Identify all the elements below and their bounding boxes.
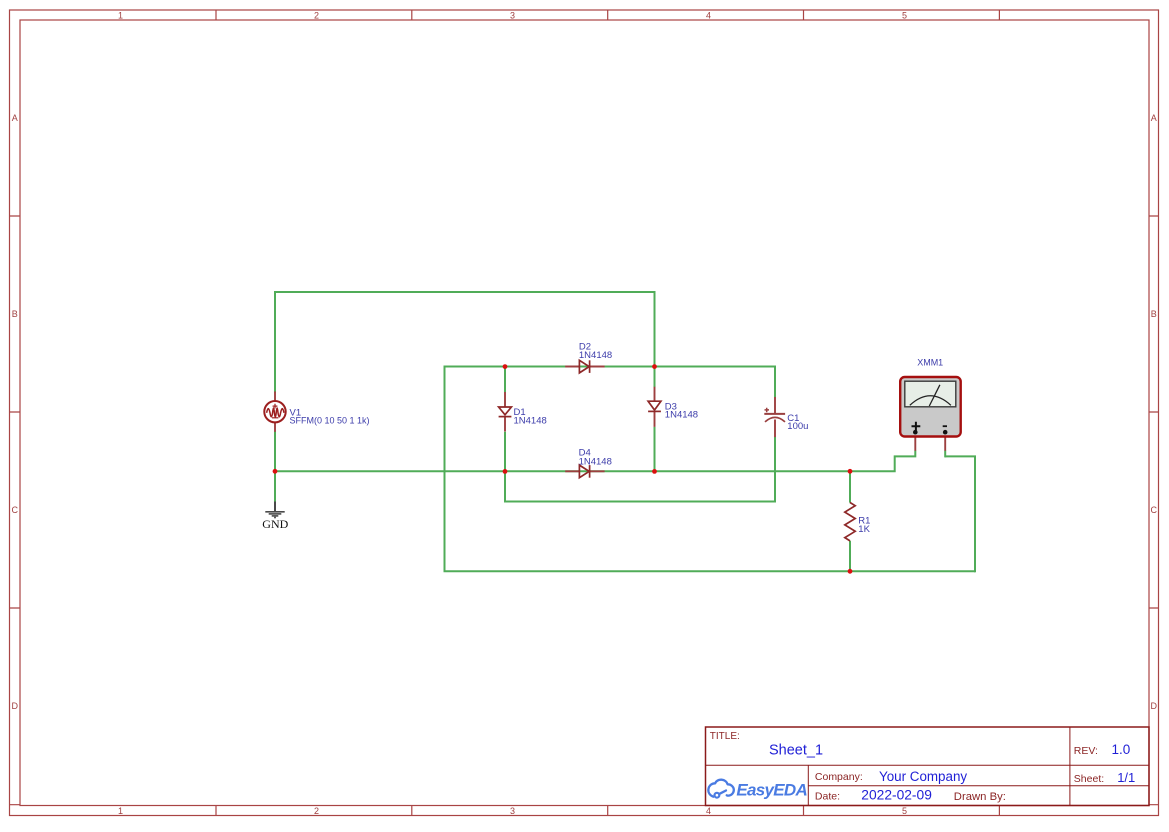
svg-text:EasyEDA: EasyEDA: [736, 781, 807, 800]
svg-text:4: 4: [706, 10, 711, 20]
svg-text:1N4148: 1N4148: [514, 416, 547, 427]
svg-text:TITLE:: TITLE:: [710, 731, 740, 742]
svg-text:D: D: [1151, 701, 1158, 711]
svg-text:C: C: [1151, 505, 1158, 515]
svg-text:2: 2: [314, 806, 319, 816]
svg-text:Sheet:: Sheet:: [1074, 773, 1104, 785]
svg-text:1K: 1K: [858, 524, 870, 535]
svg-text:1.0: 1.0: [1112, 742, 1131, 757]
svg-text:4: 4: [706, 806, 711, 816]
svg-text:D: D: [12, 701, 19, 711]
svg-text:GND: GND: [262, 517, 288, 531]
svg-text:C: C: [12, 505, 19, 515]
svg-text:Drawn By:: Drawn By:: [954, 791, 1006, 803]
svg-text:3: 3: [510, 806, 515, 816]
svg-text:XMM1: XMM1: [917, 358, 943, 368]
svg-text:Sheet_1: Sheet_1: [769, 743, 823, 759]
svg-text:1: 1: [118, 806, 123, 816]
svg-text:1/1: 1/1: [1117, 770, 1135, 785]
svg-text:5: 5: [902, 806, 907, 816]
svg-text:2: 2: [314, 10, 319, 20]
svg-text:3: 3: [510, 10, 515, 20]
svg-text:REV:: REV:: [1074, 745, 1098, 757]
svg-text:B: B: [12, 309, 18, 319]
svg-text:1N4148: 1N4148: [579, 456, 612, 467]
svg-text:SFFM(0 10 50 1 1k): SFFM(0 10 50 1 1k): [290, 415, 370, 425]
svg-text:B: B: [1151, 309, 1157, 319]
svg-text:1: 1: [118, 10, 123, 20]
svg-text:100u: 100u: [787, 421, 808, 432]
svg-text:Your Company: Your Company: [879, 769, 967, 784]
svg-text:Company:: Company:: [815, 771, 863, 783]
svg-text:A: A: [12, 113, 18, 123]
svg-text:2022-02-09: 2022-02-09: [861, 788, 932, 803]
svg-text:5: 5: [902, 10, 907, 20]
svg-text:1N4148: 1N4148: [579, 350, 612, 361]
svg-text:Date:: Date:: [815, 791, 840, 803]
svg-text:1N4148: 1N4148: [665, 410, 698, 421]
svg-text:A: A: [1151, 113, 1157, 123]
